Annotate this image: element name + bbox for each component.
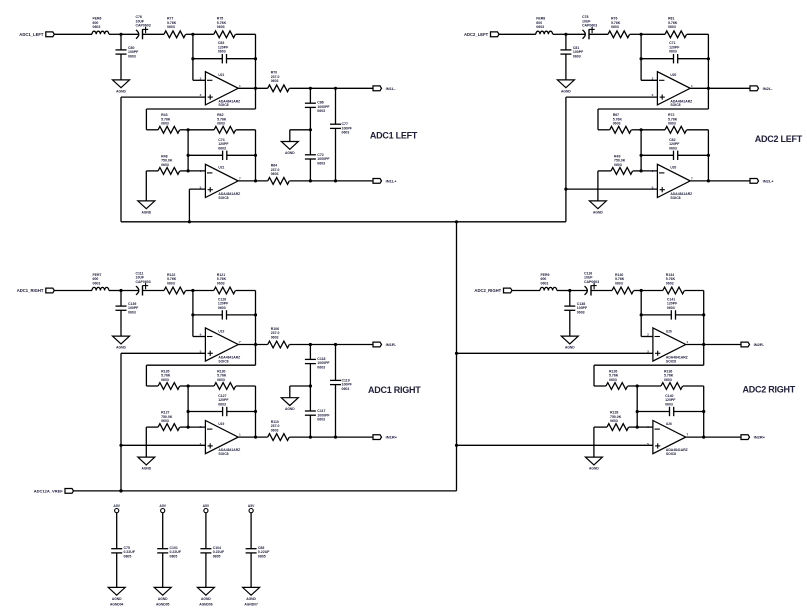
wire to output port upper: [290, 344, 374, 346]
svg-text:IN1L+: IN1L+: [386, 178, 398, 183]
junction: [636, 410, 639, 413]
resistor R121 (feedback): [214, 273, 236, 294]
junction: [707, 87, 710, 90]
svg-text:0603: 0603: [613, 122, 621, 126]
junction: [334, 436, 337, 439]
svg-text:0603: 0603: [317, 365, 325, 369]
wire pin 5 row: [566, 188, 658, 190]
svg-text:ADC1 LEFT: ADC1 LEFT: [370, 131, 418, 141]
wire feedback resistor to right vertical: [236, 33, 256, 35]
ground AGND (input filter): [113, 336, 130, 344]
junction: [119, 444, 122, 447]
svg-text:1: 1: [239, 84, 241, 88]
resistor R140 (input): [612, 273, 634, 294]
wire input to ferrite: [499, 33, 536, 35]
wire node C to lower feedback resistor: [188, 385, 214, 387]
svg-text:AGND: AGND: [246, 597, 256, 601]
wire pin 3 vertical to common: [565, 97, 567, 222]
junction mid: [309, 128, 312, 131]
junction: [640, 169, 643, 172]
wire bias resistor to ground: [593, 427, 595, 457]
junction: [564, 188, 567, 191]
svg-text:0603: 0603: [541, 281, 549, 285]
op-amp U20 (lower half): [652, 164, 693, 200]
svg-text:U26: U26: [666, 329, 672, 333]
op-amp U26 (upper half): [647, 328, 688, 364]
junction mid: [309, 384, 312, 387]
resistor R49 (bias 750K): [598, 154, 641, 174]
wire feedback resistor to right vertical: [687, 33, 709, 35]
capacitor C72 (output filter lower): [305, 130, 331, 181]
svg-text:0603: 0603: [667, 306, 675, 310]
junction node C: [187, 384, 190, 387]
resistor R126 (lower input): [606, 369, 628, 389]
wire to pin 6: [188, 170, 205, 172]
capacitor C77 (differential): [330, 88, 353, 181]
port IN2L+: [750, 178, 774, 183]
wire input to ferrite: [54, 290, 92, 292]
svg-text:AGND: AGND: [158, 597, 168, 601]
wire link vertical: [593, 365, 595, 386]
junction: [254, 179, 257, 182]
svg-text:7: 7: [691, 176, 693, 180]
svg-text:AGND: AGND: [561, 89, 571, 93]
svg-text:AGND: AGND: [116, 89, 126, 93]
ground AGND (bias): [138, 457, 155, 465]
wire node C vertical: [640, 130, 642, 171]
wire pin 3 row: [121, 96, 205, 98]
wire output lower: [238, 180, 268, 182]
junction: [707, 57, 710, 60]
op-amp U19 (upper half): [200, 328, 241, 364]
wire bias resistor to ground: [145, 427, 147, 457]
svg-text:2: 2: [647, 333, 649, 337]
svg-text:0805: 0805: [124, 555, 132, 559]
svg-text:AGND: AGND: [141, 210, 151, 214]
svg-text:ADC2 RIGHT: ADC2 RIGHT: [743, 385, 796, 395]
ferrite bead FER7: [92, 273, 109, 291]
wire pin 3 vertical to common: [120, 97, 122, 222]
wire pin 3 vertical to VREF: [120, 353, 122, 491]
svg-text:0603: 0603: [577, 311, 585, 315]
svg-text:AGND: AGND: [116, 346, 126, 350]
wire to node B: [630, 33, 641, 35]
svg-text:U19: U19: [218, 329, 224, 333]
junction: [187, 410, 190, 413]
wire node C to lower feedback resistor: [637, 385, 661, 387]
svg-text:0603: 0603: [668, 25, 676, 29]
svg-text:U19: U19: [218, 422, 224, 426]
capacitor C126 (feedback): [193, 297, 256, 319]
junction: [254, 154, 257, 157]
svg-text:0603: 0603: [167, 25, 175, 29]
svg-text:0603: 0603: [217, 281, 225, 285]
ground AGND (input filter): [561, 336, 578, 344]
wire feedback resistor to right vertical: [236, 290, 256, 292]
svg-text:ADC2_LEFT: ADC2_LEFT: [464, 32, 489, 37]
svg-text:ADC12A_VREF: ADC12A_VREF: [34, 489, 63, 494]
svg-text:0603: 0603: [665, 403, 673, 407]
junction: [334, 343, 337, 346]
svg-text:IN2R+: IN2R+: [754, 435, 766, 440]
svg-text:0603: 0603: [609, 378, 617, 382]
wire node B to feedback resistor: [193, 33, 214, 35]
svg-text:AGND: AGND: [593, 210, 603, 214]
wire to node B: [186, 33, 193, 35]
wire output upper: [238, 344, 239, 346]
wire to lower right vertical: [683, 385, 704, 387]
svg-text:0603: 0603: [317, 418, 325, 422]
wire pin 5 vertical to common: [188, 189, 190, 222]
capacitor C117 (output filter lower): [305, 386, 331, 437]
wire pin 5 row: [189, 188, 205, 190]
wire to lower right vertical: [687, 129, 709, 131]
supply A5V node (C88 branch): [248, 504, 255, 513]
svg-text:ADC1 RIGHT: ADC1 RIGHT: [368, 385, 421, 395]
wire output upper: [686, 344, 741, 346]
junction node B: [640, 289, 643, 292]
svg-text:7: 7: [239, 176, 241, 180]
wire node B vertical: [640, 291, 642, 337]
svg-text:IN2L+: IN2L+: [763, 178, 775, 183]
junction: [455, 352, 458, 355]
ground AGND (C75 branch): [108, 587, 125, 595]
junction: [309, 179, 312, 182]
resistor R67 (lower input): [610, 113, 632, 133]
capacitor C101 (decoupling): [157, 513, 182, 588]
port IN1L+: [373, 178, 397, 183]
junction: [636, 426, 639, 429]
wire right vertical (feedback): [255, 291, 257, 366]
svg-text:IN2R-: IN2R-: [754, 342, 765, 347]
resistor R48 (bias 750K): [146, 154, 188, 174]
junction: [187, 154, 190, 157]
resistor R72 (lower feedback): [665, 113, 687, 133]
svg-text:CAP0603: CAP0603: [582, 24, 597, 28]
ferrite bead FER6: [92, 17, 109, 35]
svg-text:0603: 0603: [615, 281, 623, 285]
capacitor C119 (differential): [330, 345, 353, 438]
junction: [254, 57, 257, 60]
svg-text:SOIC8: SOIC8: [666, 359, 676, 363]
resistor R127 (bias 750K): [146, 411, 188, 431]
resistor R77 (input): [164, 17, 186, 38]
ground AGND (C88 branch): [243, 587, 260, 595]
junction: [707, 154, 710, 157]
wire pin 3 row: [121, 352, 205, 354]
resistor R62 (lower feedback): [214, 113, 236, 133]
resistor R70 (output upper): [268, 71, 290, 92]
port IN1L-: [373, 86, 396, 91]
svg-text:U20: U20: [670, 166, 676, 170]
junction: [455, 444, 458, 447]
op-amp U26 (lower half): [647, 421, 688, 457]
capacitor C139 (input shunt): [116, 291, 140, 337]
junction: [702, 313, 705, 316]
wire to output port upper: [290, 87, 374, 89]
svg-text:0805: 0805: [170, 555, 178, 559]
svg-text:0603: 0603: [217, 378, 225, 382]
wire link row: [594, 364, 704, 366]
junction node C: [187, 128, 190, 131]
wire output upper: [690, 87, 750, 89]
op-amp U20 (upper half): [652, 72, 693, 108]
svg-text:SOIC8: SOIC8: [666, 452, 676, 456]
resistor R75 (feedback): [214, 17, 236, 38]
wire to node C: [180, 129, 188, 131]
wire to output port lower: [290, 180, 374, 182]
svg-text:0603: 0603: [271, 335, 279, 339]
wire link row: [146, 108, 255, 110]
ground AGND (C104 branch): [197, 587, 214, 595]
wire link row: [146, 364, 255, 366]
junction: [702, 410, 705, 413]
svg-text:A5V: A5V: [203, 504, 210, 508]
svg-text:0603: 0603: [161, 419, 169, 423]
junction: [254, 87, 257, 90]
wire pin 3 row: [566, 96, 658, 98]
svg-text:0805: 0805: [258, 555, 266, 559]
wire node B vertical: [640, 34, 642, 80]
capacitor C138 (input shunt): [564, 291, 588, 337]
junction: [254, 410, 257, 413]
svg-text:SOIC8: SOIC8: [670, 196, 680, 200]
wire ferrite to node: [109, 33, 121, 35]
supply A5V node (C75 branch): [113, 504, 120, 513]
junction: [119, 489, 122, 492]
junction: [187, 169, 190, 172]
op-amp U19 (lower half): [200, 421, 241, 457]
wire to output port lower: [290, 436, 374, 438]
svg-text:CAP0603: CAP0603: [584, 280, 599, 284]
svg-text:7: 7: [239, 340, 241, 344]
wire node B to feedback resistor: [193, 290, 214, 292]
junction: [702, 436, 705, 439]
resistor R128 (bias 750K): [594, 411, 637, 431]
junction: [707, 179, 710, 182]
wire lower right vertical: [703, 386, 705, 437]
svg-text:ADC1_RIGHT: ADC1_RIGHT: [17, 288, 44, 293]
capacitor C80 (input shunt): [116, 34, 140, 80]
ground AGND (output filter): [281, 398, 298, 406]
svg-text:AGND: AGND: [285, 151, 295, 155]
resistor R134 (feedback): [663, 273, 685, 294]
junction: [254, 343, 257, 346]
ferrite bead FER8: [536, 17, 553, 35]
junction node C: [640, 128, 643, 131]
wire node C vertical: [187, 386, 189, 427]
svg-text:SOIC8: SOIC8: [218, 196, 228, 200]
junction input node: [568, 289, 571, 292]
capacitor C116 (AC coupling, polarized): [570, 271, 612, 295]
svg-text:0603: 0603: [217, 25, 225, 29]
svg-text:AGND: AGND: [112, 597, 122, 601]
junction: [455, 220, 458, 223]
wire ferrite to node: [553, 33, 566, 35]
junction: [640, 57, 643, 60]
ground AGND (bias): [589, 201, 606, 209]
wire node B vertical: [192, 34, 194, 80]
junction: [334, 87, 337, 90]
wire pin 5 row: [457, 444, 653, 446]
svg-text:0603: 0603: [128, 54, 136, 58]
wire node C to lower feedback resistor: [641, 129, 665, 131]
svg-text:0603: 0603: [611, 25, 619, 29]
svg-text:SOIC8: SOIC8: [218, 359, 228, 363]
svg-text:0603: 0603: [218, 403, 226, 407]
svg-text:0603: 0603: [167, 281, 175, 285]
junction node B: [640, 33, 643, 36]
ground AGND (C101 branch): [154, 587, 171, 595]
svg-text:AGND: AGND: [201, 597, 211, 601]
svg-text:AGND05: AGND05: [156, 603, 170, 607]
svg-text:IN1R-: IN1R-: [386, 342, 397, 347]
junction node B: [191, 33, 194, 36]
svg-text:U26: U26: [666, 422, 672, 426]
capacitor C76 (AC coupling, polarized): [121, 15, 164, 39]
wire bias resistor to ground: [597, 171, 599, 201]
svg-text:U20: U20: [670, 73, 676, 77]
wire node B to feedback resistor: [641, 33, 665, 35]
svg-text:U21: U21: [218, 166, 224, 170]
resistor R122 (input): [164, 273, 186, 294]
capacitor C141 (feedback): [641, 297, 704, 319]
port IN2R-: [741, 342, 765, 347]
svg-text:0603: 0603: [93, 25, 101, 29]
junction: [254, 436, 257, 439]
port IN2R+: [741, 435, 766, 440]
svg-text:1: 1: [691, 84, 693, 88]
svg-text:0603: 0603: [610, 419, 618, 423]
svg-text:0603: 0603: [218, 146, 226, 150]
wire to resistor: [146, 129, 158, 131]
svg-text:AGND: AGND: [141, 467, 151, 471]
resistor R135 (lower input): [158, 369, 180, 389]
svg-text:0603: 0603: [664, 378, 672, 382]
svg-text:0603: 0603: [573, 54, 581, 58]
wire feedback resistor to right vertical: [685, 290, 704, 292]
svg-text:0603: 0603: [536, 25, 544, 29]
svg-text:AGND04: AGND04: [110, 603, 124, 607]
wire to lower right vertical: [236, 385, 256, 387]
svg-text:CAP0603: CAP0603: [136, 24, 151, 28]
capacitor C86 (output filter upper): [305, 88, 331, 130]
wire lower right vertical: [255, 386, 257, 437]
junction node B: [191, 289, 194, 292]
svg-text:6: 6: [652, 169, 654, 173]
svg-text:AGND: AGND: [589, 467, 599, 471]
op-amp U21 (lower half): [200, 164, 241, 200]
capacitor C81 (input shunt): [560, 34, 584, 80]
port ADC2_RIGHT (input): [474, 288, 512, 293]
junction: [191, 313, 194, 316]
svg-text:0603: 0603: [218, 306, 226, 310]
svg-text:6: 6: [200, 333, 202, 337]
svg-text:U21: U21: [218, 73, 224, 77]
wire node C vertical: [636, 386, 638, 427]
svg-text:6: 6: [647, 425, 649, 429]
svg-text:SOIC8: SOIC8: [670, 103, 680, 107]
junction: [191, 57, 194, 60]
svg-text:IN2L-: IN2L-: [763, 86, 774, 91]
wire mid to ground: [290, 129, 311, 131]
svg-text:IN1L-: IN1L-: [386, 86, 397, 91]
junction input node: [119, 33, 122, 36]
wire right vertical (feedback): [707, 34, 709, 109]
svg-text:1: 1: [687, 340, 689, 344]
svg-text:2: 2: [200, 425, 202, 429]
svg-text:ADC1_LEFT: ADC1_LEFT: [19, 32, 44, 37]
wire to resistor: [594, 385, 606, 387]
resistor R136 (lower feedback): [661, 369, 683, 389]
resistor R106 (output upper): [268, 327, 290, 348]
wire lower right vertical: [255, 130, 257, 181]
junction: [119, 489, 122, 492]
wire to lower right vertical: [236, 129, 256, 131]
svg-text:IN1R+: IN1R+: [386, 435, 398, 440]
svg-text:0603: 0603: [271, 172, 279, 176]
junction: [254, 313, 257, 316]
wire ferrite to node: [109, 290, 121, 292]
svg-text:7: 7: [687, 433, 689, 437]
wire to node B: [634, 290, 641, 292]
capacitor C78 (AC coupling, polarized): [566, 15, 608, 39]
wire input to ferrite: [54, 33, 92, 35]
wire to pin 6: [188, 426, 205, 428]
svg-text:A5V: A5V: [159, 504, 166, 508]
junction input node: [119, 289, 122, 292]
resistor R64 (output lower): [268, 164, 290, 185]
svg-text:2: 2: [652, 76, 654, 80]
wire pin 5 row: [121, 444, 205, 446]
svg-text:0603: 0603: [271, 428, 279, 432]
wire VREF row: [74, 490, 457, 492]
junction: [309, 436, 312, 439]
supply A5V node (C104 branch): [203, 504, 210, 513]
svg-text:AGND: AGND: [565, 346, 575, 350]
svg-text:2: 2: [200, 76, 202, 80]
port ADC1_RIGHT (input): [17, 288, 55, 293]
svg-text:AGND06: AGND06: [199, 603, 213, 607]
svg-text:0603: 0603: [669, 50, 677, 54]
port IN1R-: [373, 342, 397, 347]
svg-text:A5V: A5V: [248, 504, 255, 508]
wire pin 3 row: [457, 352, 653, 354]
port IN1R+: [373, 435, 398, 440]
supply A5V node (C101 branch): [159, 504, 166, 513]
wire output lower: [686, 436, 741, 438]
wire to pin 2: [193, 79, 206, 81]
capacitor C104 (decoupling): [200, 513, 225, 588]
wire to pin 2: [193, 336, 206, 338]
junction: [640, 154, 643, 157]
junction: [187, 426, 190, 429]
capacitor C111 (AC coupling, polarized): [121, 271, 164, 295]
svg-text:0603: 0603: [161, 122, 169, 126]
wire to node C: [180, 385, 188, 387]
svg-text:0603: 0603: [668, 122, 676, 126]
capacitor C82 (lower feedback): [641, 138, 708, 160]
wire to node C: [628, 385, 637, 387]
junction: [702, 343, 705, 346]
wire link vertical: [145, 109, 147, 130]
capacitor C118 (output filter upper): [305, 345, 331, 387]
wire input to ferrite: [512, 290, 540, 292]
wire output lower: [690, 180, 750, 182]
junction node C: [636, 384, 639, 387]
svg-text:0805: 0805: [213, 555, 221, 559]
wire link vertical: [145, 365, 147, 386]
